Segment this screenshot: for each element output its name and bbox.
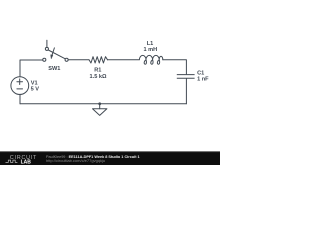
svg-text:V1: V1 [31,80,38,86]
svg-text:L1: L1 [147,41,154,47]
switch SW1 [43,40,68,61]
capacitor C1 [177,75,195,79]
svg-text:SW1: SW1 [48,66,60,72]
ground [93,104,107,116]
svg-text:LAB: LAB [21,160,32,166]
bottom wire [20,103,186,105]
inductor L1 [139,55,162,64]
svg-text:1 nF: 1 nF [197,77,209,83]
footer bar [0,152,220,166]
voltage source V1 [11,77,29,95]
CircuitLab logo [6,155,38,165]
svg-text:1 mH: 1 mH [143,47,157,53]
labels [31,41,210,93]
svg-text:5 V: 5 V [31,87,40,93]
wire C1 to bottom-right corner [185,79,187,104]
wire R1 to L1 [108,59,139,61]
resistor R1 [89,57,108,63]
svg-text:R1: R1 [94,67,101,73]
svg-text:1.5 kΩ: 1.5 kΩ [90,74,107,80]
wire bottom-left to V1 [19,94,21,104]
wire SW1 to R1 [68,59,89,61]
svg-text:http://circuitlab.com/c/e77gvg: http://circuitlab.com/c/e77gvgqkju [46,158,105,163]
junction node on bottom wire [98,102,101,105]
wire L1 to top-right corner down to C1 [163,60,187,74]
wire top-left from V1 up and right to SW1 [20,60,43,77]
